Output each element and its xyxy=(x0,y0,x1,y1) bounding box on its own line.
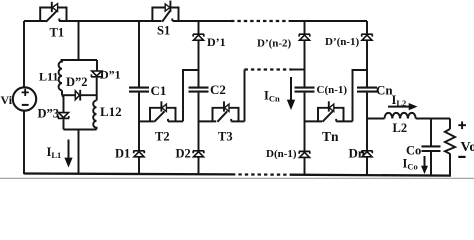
wire top rail segment from Vi to T1 left contact xyxy=(24,20,46,22)
svg-text:S1: S1 xyxy=(157,24,170,38)
transistor T3 right contact tick xyxy=(230,119,232,122)
transistor T2 diode loop xyxy=(150,108,176,122)
load branch wire upper xyxy=(449,119,451,130)
svg-text:Vo: Vo xyxy=(461,140,474,155)
svg-text:D’1: D’1 xyxy=(207,35,226,49)
capacitor Cn column wire xyxy=(366,21,368,87)
svg-text:C2: C2 xyxy=(210,82,226,97)
svg-text:Dn: Dn xyxy=(349,146,366,161)
transistor T2 switch blade xyxy=(154,111,164,122)
current arrow ICn xyxy=(290,77,292,101)
transistor Tn switch blade xyxy=(322,111,332,122)
transistor T3 switch blade xyxy=(217,111,227,122)
svg-text:D(n-1): D(n-1) xyxy=(266,148,297,160)
load resistor Vo zigzag xyxy=(445,129,455,154)
capacitor Co plates xyxy=(422,146,441,151)
transistor T3 diode loop xyxy=(213,108,239,122)
diode D"3 (points down) xyxy=(58,113,69,119)
inductor L2 coil xyxy=(385,113,416,119)
diode D(n-1) (points up) xyxy=(299,151,310,157)
transistor T1 switch blade xyxy=(46,10,58,21)
svg-text:L12: L12 xyxy=(100,104,122,119)
svg-text:D”3: D”3 xyxy=(38,107,60,121)
capacitor C(n-1) column wire lower xyxy=(304,93,306,176)
diode D'1 (points up) xyxy=(193,34,204,40)
capacitor C1 plates xyxy=(129,88,149,92)
svg-text:L11: L11 xyxy=(39,70,58,84)
svg-text:C1: C1 xyxy=(151,83,167,98)
capacitor C2 column wire xyxy=(198,21,200,87)
wire L11 bottom to D"2 node xyxy=(61,90,63,95)
wire cell bottom drop to ground rail xyxy=(78,130,80,175)
diode Dn (points up) xyxy=(361,151,372,157)
transistor T2 branch wire left xyxy=(139,120,154,122)
output minus sign xyxy=(458,156,465,158)
svg-text:T1: T1 xyxy=(50,26,65,40)
transistor T1 diode (points left) xyxy=(51,2,53,12)
wire riser T3 up to dashed bus xyxy=(244,70,246,122)
voltage source Vi wire bottom xyxy=(23,111,25,174)
figure bottom faint border line xyxy=(0,177,474,179)
svg-text:L2: L2 xyxy=(393,121,408,135)
transistor T2 branch wire right xyxy=(168,120,183,122)
inductor L11 coil xyxy=(59,60,62,90)
capacitor C1 column wire upper xyxy=(138,21,140,87)
diode D"2 (points right) xyxy=(75,91,79,100)
svg-text:Tn: Tn xyxy=(322,129,339,144)
diode D"2 horizontal wire left xyxy=(62,94,75,96)
capacitor C(n-1) column wire xyxy=(304,21,306,87)
switch S1 right contact tick xyxy=(171,19,173,22)
current arrow IL2 xyxy=(388,106,409,108)
wire right branch: top corner down to D"1 xyxy=(96,60,98,71)
wire riser from top rail down to switched-inductor cell xyxy=(78,21,80,60)
voltage source plus sign xyxy=(22,89,29,96)
transistor Tn right contact tick xyxy=(335,119,337,122)
switch S1 diode (points right) xyxy=(169,1,171,13)
svg-text:Co: Co xyxy=(406,144,421,158)
svg-text:D’(n-2): D’(n-2) xyxy=(257,38,292,50)
transistor T3 branch wire left xyxy=(199,120,217,122)
wire mid bus into C(n-1) column xyxy=(292,69,305,71)
wire output branch from Cn column to L2 xyxy=(367,118,385,120)
switched-inductor cell top wire xyxy=(61,59,98,61)
diode D'(n-1) (points up) xyxy=(361,34,372,40)
inductor L12 coil xyxy=(93,101,96,130)
voltage source Vi circle xyxy=(13,87,36,110)
capacitor C2 plates xyxy=(189,88,209,92)
capacitor Cn column wire lower xyxy=(366,93,368,176)
transistor Tn diode (points left) xyxy=(328,101,330,111)
wire riser Tn to Cn column with jog xyxy=(353,70,368,121)
current arrow ICo xyxy=(424,156,426,166)
voltage source minus sign xyxy=(22,104,29,106)
output plus sign xyxy=(458,121,466,129)
capacitor Co wire upper xyxy=(430,119,432,147)
transistor T2 right contact tick xyxy=(167,119,169,122)
transistor T1 right contact tick xyxy=(58,19,60,22)
ground rail bottom left solid xyxy=(24,172,232,175)
transistor Tn diode loop xyxy=(318,108,344,122)
voltage source Vi wire top xyxy=(23,21,25,87)
switch S1 anti-parallel diode loop xyxy=(152,8,178,22)
svg-text:D”2: D”2 xyxy=(66,75,88,89)
svg-text:D’(n-1): D’(n-1) xyxy=(325,36,360,48)
wire L2 to output node xyxy=(416,118,450,120)
cell bottom wire xyxy=(64,129,97,131)
capacitor C(n-1) plates xyxy=(295,88,315,92)
wire riser T2 to C2 column with jog xyxy=(183,70,199,121)
wire top rail segment from S1 right contact to dashed break xyxy=(173,20,232,22)
wire D"3 to cell bottom corner xyxy=(63,119,65,129)
wire left branch D"2 node to D"3 xyxy=(62,95,64,113)
diode D'(n-2) (points up) xyxy=(299,34,310,40)
ground rail bottom right solid xyxy=(290,174,451,177)
svg-text:C(n-1): C(n-1) xyxy=(317,84,348,96)
wire D"1 to D"2 node xyxy=(96,78,98,101)
wire top rail segment from dashed break to Cn column corner xyxy=(289,20,367,22)
transistor T3 diode (points left) xyxy=(223,101,225,111)
transistor T1 anti-parallel diode loop xyxy=(40,8,66,22)
capacitor Cn plates xyxy=(357,88,377,92)
switch S1 blade xyxy=(162,11,170,22)
capacitor Co wire lower xyxy=(430,152,432,176)
svg-text:Vi: Vi xyxy=(1,93,13,107)
diode D"1 (points down) xyxy=(91,71,102,77)
svg-text:D2: D2 xyxy=(176,147,191,161)
wire top rail dashed omitted-stage segment xyxy=(231,20,289,22)
svg-text:T3: T3 xyxy=(218,130,233,144)
transistor Tn branch wire left xyxy=(305,120,323,122)
diode D2 (points up) xyxy=(193,151,204,157)
transistor Tn branch wire right xyxy=(336,120,352,122)
diode D"2 wire right xyxy=(80,94,97,96)
capacitor C2 column wire lower xyxy=(198,93,200,175)
wire dashed omitted-stage mid bus xyxy=(245,68,293,70)
wire top rail segment from T1 right contact to S1 left contact xyxy=(59,20,162,22)
capacitor C1 column wire lower xyxy=(138,93,140,175)
load branch wire lower xyxy=(449,154,451,176)
diode D1 (points up) xyxy=(133,151,144,157)
svg-text:D1: D1 xyxy=(115,147,130,161)
svg-text:T2: T2 xyxy=(155,130,170,144)
ground rail bottom dashed omitted segment xyxy=(232,173,290,176)
current arrow IL1 xyxy=(68,140,70,159)
svg-text:D”1: D”1 xyxy=(100,68,121,82)
transistor T2 diode (points left) xyxy=(160,101,162,111)
transistor T3 branch wire right xyxy=(231,120,244,122)
